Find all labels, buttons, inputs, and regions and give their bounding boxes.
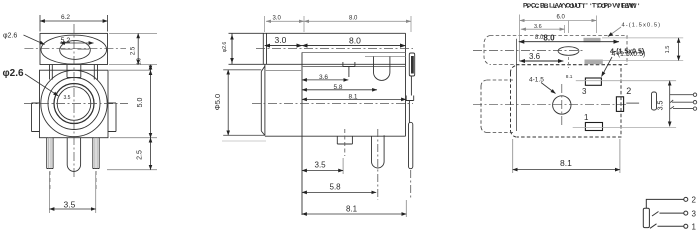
svg-text:Φ5.0: Φ5.0	[213, 94, 222, 110]
svg-text:3.5: 3.5	[315, 161, 327, 170]
svg-text:6.2: 6.2	[61, 14, 70, 21]
svg-text:3: 3	[582, 87, 587, 96]
svg-text:1: 1	[584, 113, 589, 122]
svg-text:3.6: 3.6	[529, 52, 541, 61]
svg-text:3.5: 3.5	[64, 95, 71, 101]
svg-text:3.0: 3.0	[273, 16, 282, 22]
svg-text:2.5: 2.5	[137, 150, 144, 160]
svg-text:5.8: 5.8	[334, 84, 343, 91]
svg-text:3.5: 3.5	[658, 101, 665, 111]
svg-text:8.1: 8.1	[560, 158, 572, 168]
svg-text:8.1: 8.1	[566, 74, 573, 80]
svg-text:3.0: 3.0	[275, 35, 287, 45]
svg-text:5.8: 5.8	[330, 183, 342, 192]
svg-text:1.5: 1.5	[665, 46, 671, 54]
svg-text:8.1: 8.1	[346, 205, 358, 214]
svg-text:2.5: 2.5	[131, 46, 137, 55]
svg-text:P.C.B LAYOUT ' TOP VIEW': P.C.B LAYOUT ' TOP VIEW'	[527, 3, 641, 10]
svg-text:8.0: 8.0	[349, 36, 361, 46]
svg-text:1.0: 1.0	[137, 58, 143, 65]
svg-text:2: 2	[626, 86, 631, 96]
svg-text:8.1: 8.1	[349, 94, 358, 101]
svg-text:3: 3	[692, 210, 697, 219]
svg-text:4-1.5: 4-1.5	[529, 77, 544, 84]
svg-text:2: 2	[692, 196, 697, 205]
svg-text:1: 1	[692, 223, 697, 232]
svg-text:6.0: 6.0	[557, 15, 566, 21]
svg-text:4-(1.5x0.5): 4-(1.5x0.5)	[612, 51, 646, 58]
svg-text:5.2: 5.2	[61, 38, 71, 45]
svg-text:5.0: 5.0	[137, 98, 144, 108]
svg-text:3.6: 3.6	[319, 74, 328, 81]
svg-text:3.6: 3.6	[534, 24, 542, 30]
svg-text:8.0: 8.0	[349, 16, 358, 22]
svg-text:φ2.6: φ2.6	[222, 42, 228, 53]
svg-text:φ2.6: φ2.6	[3, 33, 17, 40]
svg-text:4-(1.5x0.5): 4-(1.5x0.5)	[622, 23, 662, 29]
svg-text:8.0: 8.0	[543, 34, 555, 43]
svg-text:3.5: 3.5	[64, 200, 76, 210]
svg-text:φ2.6: φ2.6	[3, 68, 24, 79]
